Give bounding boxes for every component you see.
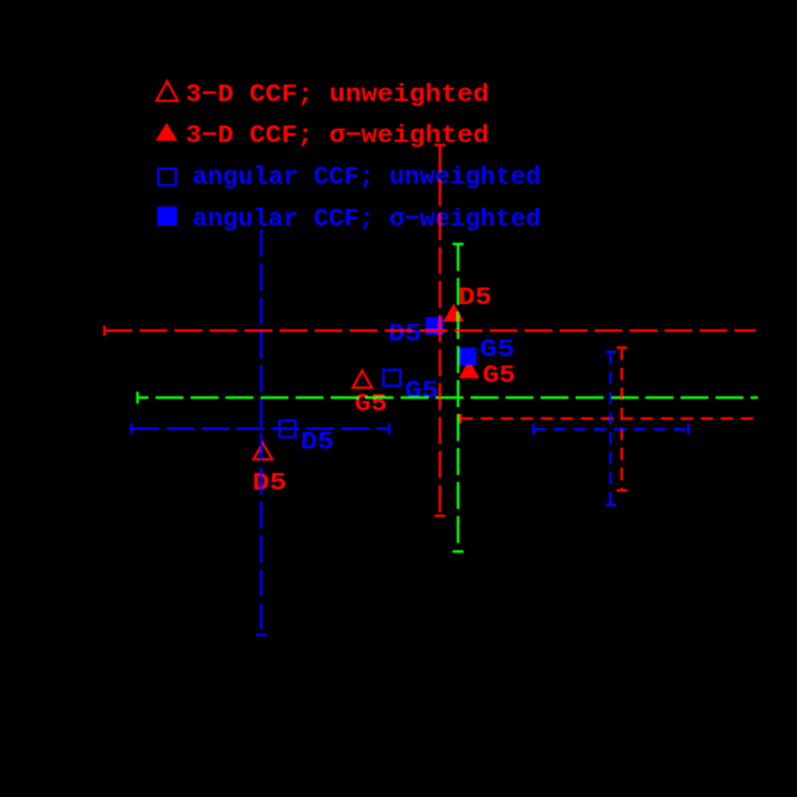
red long-dash horizontal left cap bbox=[103, 326, 106, 336]
svg-text:angular CCF; unweighted: angular CCF; unweighted bbox=[192, 163, 541, 192]
green error bar vertical top cap bbox=[453, 243, 464, 246]
svg-text:3−D CCF; unweighted: 3−D CCF; unweighted bbox=[186, 80, 490, 109]
svg-text:G5: G5 bbox=[355, 390, 387, 419]
svg-text:D5: D5 bbox=[301, 428, 334, 457]
open red triangle G5 bbox=[353, 371, 372, 388]
blue long-dash error bar horizontal bbox=[131, 427, 389, 430]
legend open square (angular CCF unweighted) bbox=[158, 169, 176, 186]
svg-text:D5: D5 bbox=[252, 468, 286, 497]
red short-dash vertical bottom cap bbox=[617, 489, 628, 492]
red short-dash error bar vertical bbox=[620, 348, 623, 491]
blue long-dash horizontal right cap bbox=[388, 423, 391, 434]
filled blue square D5 bbox=[425, 317, 443, 335]
filled blue square G5 bbox=[459, 348, 477, 366]
svg-text:G5: G5 bbox=[405, 376, 439, 405]
legend filled square (angular CCF sigma-weighted) bbox=[157, 207, 177, 226]
blue long-dash error bar vertical bbox=[260, 230, 263, 630]
svg-text:angular CCF; σ−weighted: angular CCF; σ−weighted bbox=[192, 204, 541, 233]
red long-dash error bar horizontal bbox=[105, 329, 756, 332]
green error bar vertical bottom cap bbox=[453, 550, 464, 553]
blue short-dash error bar horizontal bbox=[534, 428, 689, 431]
legend open triangle (3-D CCF unweighted) bbox=[156, 81, 177, 101]
green error bar horizontal bbox=[138, 396, 759, 399]
svg-text:G5: G5 bbox=[483, 361, 516, 390]
blue short-dash horizontal left cap bbox=[532, 424, 535, 435]
svg-text:G5: G5 bbox=[480, 335, 515, 364]
legend filled triangle (3-D CCF sigma-weighted) bbox=[156, 123, 178, 141]
open red triangle D5 bbox=[253, 443, 272, 459]
red long-dash vertical top cap bbox=[435, 144, 446, 147]
open blue square G5 bbox=[384, 370, 401, 386]
red long-dash error bar vertical bbox=[439, 145, 442, 516]
green error bar vertical bbox=[457, 244, 460, 552]
green error bar horizontal left cap bbox=[136, 392, 139, 404]
blue short-dash vertical bottom cap bbox=[606, 504, 616, 507]
filled red triangle D5 bbox=[443, 303, 464, 321]
blue short-dash error bar vertical bbox=[609, 352, 612, 505]
filled red triangle G5 bbox=[459, 360, 480, 378]
blue short-dash vertical top cap bbox=[606, 351, 616, 354]
blue long-dash horizontal left cap bbox=[130, 423, 133, 434]
open blue square D5 bbox=[279, 421, 295, 438]
svg-text:D5: D5 bbox=[458, 283, 492, 312]
red short-dash vertical top cap bbox=[617, 346, 628, 349]
blue long-dash vertical bottom cap bbox=[256, 633, 267, 636]
red long-dash vertical bottom cap bbox=[435, 514, 446, 517]
red short-dash horizontal left cap bbox=[459, 414, 462, 423]
svg-text:D5: D5 bbox=[388, 320, 421, 349]
blue short-dash horizontal right cap bbox=[687, 424, 690, 435]
red short-dash error bar horizontal bbox=[461, 417, 757, 420]
